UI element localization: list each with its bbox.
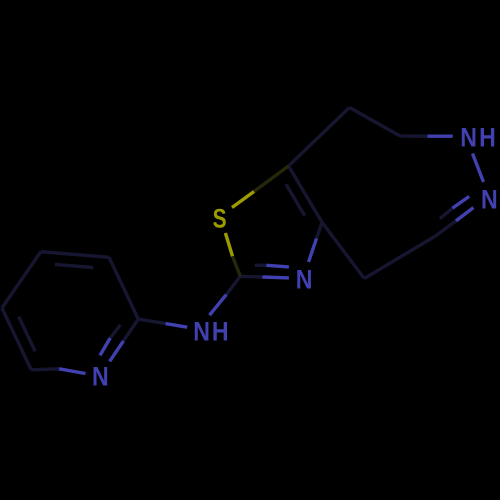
svg-text:N: N [481, 185, 498, 215]
svg-text:N: N [296, 265, 313, 295]
svg-text:H: H [212, 317, 229, 347]
svg-text:N: N [92, 362, 109, 392]
svg-text:N: N [460, 123, 477, 153]
svg-text:S: S [213, 204, 227, 234]
svg-text:H: H [479, 123, 496, 153]
svg-text:N: N [193, 317, 210, 347]
